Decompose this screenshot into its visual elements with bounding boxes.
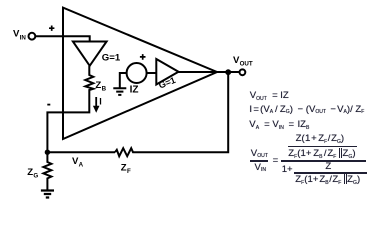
svg-text:Z: Z [95,80,101,91]
svg-text:G: G [33,173,38,180]
svg-text:B: B [102,86,107,93]
svg-text:Z: Z [27,167,33,178]
svg-text:F: F [127,168,131,175]
svg-text:IN: IN [20,35,27,42]
svg-text:OUT: OUT [240,61,253,68]
svg-text:I: I [99,96,102,106]
svg-text:G=1: G=1 [102,52,121,63]
svg-text:Z: Z [121,163,127,174]
svg-text:A: A [79,162,84,169]
svg-text:IZ: IZ [130,85,139,96]
